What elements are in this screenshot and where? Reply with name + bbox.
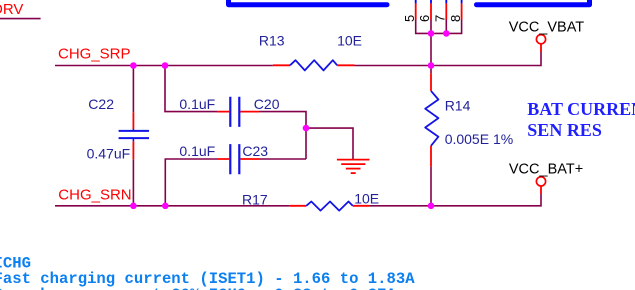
- pin 7: [433, 0, 448, 22]
- svg-text:5: 5: [402, 15, 417, 22]
- svg-text:VCC_BAT+: VCC_BAT+: [509, 161, 583, 177]
- junction bottom 3: [428, 203, 435, 210]
- ground: [337, 160, 370, 174]
- svg-text:7: 7: [433, 15, 448, 22]
- junction top 1: [130, 62, 137, 69]
- power port VCC_BAT+: [509, 161, 583, 194]
- IC body bottom edge left (blue bar): [229, 0, 388, 5]
- svg-text:BAT CURRENT: BAT CURRENT: [527, 99, 635, 119]
- svg-text:CHG_SRN: CHG_SRN: [58, 187, 131, 204]
- svg-text:0.1uF: 0.1uF: [179, 143, 215, 159]
- svg-text:CHG_SRP: CHG_SRP: [58, 45, 131, 62]
- junction C20/C23/gnd: [303, 125, 310, 132]
- power port VCC_VBAT: [509, 20, 585, 53]
- svg-text:R14: R14: [445, 98, 471, 114]
- junction top 2: [162, 62, 169, 69]
- svg-text:R13: R13: [259, 33, 285, 49]
- resistor R14: [425, 66, 513, 206]
- svg-text:DRV: DRV: [0, 1, 23, 18]
- junction bus A: [428, 30, 435, 37]
- svg-text:8: 8: [448, 15, 463, 22]
- svg-text:0.47uF: 0.47uF: [87, 146, 131, 162]
- junction bottom 1: [130, 203, 137, 210]
- svg-text:0.005E 1%: 0.005E 1%: [445, 131, 514, 147]
- IC body bottom edge right (blue bar): [477, 0, 590, 5]
- svg-text:10E: 10E: [354, 191, 379, 207]
- pin 5: [402, 0, 417, 22]
- wire bus to top net: [430, 33, 432, 65]
- capacitor C23 branch: [165, 143, 306, 206]
- junction bus B: [443, 30, 450, 37]
- svg-text:R17: R17: [242, 192, 268, 208]
- resistor R13: [259, 33, 362, 71]
- wire pin bus: [416, 20, 462, 34]
- svg-text:C22: C22: [88, 96, 114, 112]
- wire CHG_SRN (bottom net): [55, 194, 541, 206]
- svg-text:C23: C23: [242, 143, 268, 159]
- svg-text:6: 6: [417, 15, 432, 22]
- pin 8: [448, 0, 463, 22]
- svg-text:Pre-charge current 20% ICHG -: Pre-charge current 20% ICHG - 0.33 to 0.…: [0, 286, 397, 290]
- pin 6: [417, 0, 432, 22]
- wire to ground: [306, 128, 353, 159]
- capacitor C22: [87, 66, 149, 206]
- junction bottom 2: [162, 203, 169, 210]
- wire CHG_SRP (top net): [55, 52, 541, 66]
- svg-text:10E: 10E: [337, 33, 362, 49]
- svg-text:VCC_VBAT: VCC_VBAT: [509, 20, 585, 36]
- svg-text:SEN RES: SEN RES: [527, 120, 602, 140]
- wire DRV stub: [0, 18, 41, 20]
- capacitor C20 branch: [165, 66, 306, 160]
- svg-text:C20: C20: [254, 96, 280, 112]
- junction top 3: [428, 62, 435, 69]
- svg-text:0.1uF: 0.1uF: [179, 96, 215, 112]
- resistor R17: [242, 191, 379, 211]
